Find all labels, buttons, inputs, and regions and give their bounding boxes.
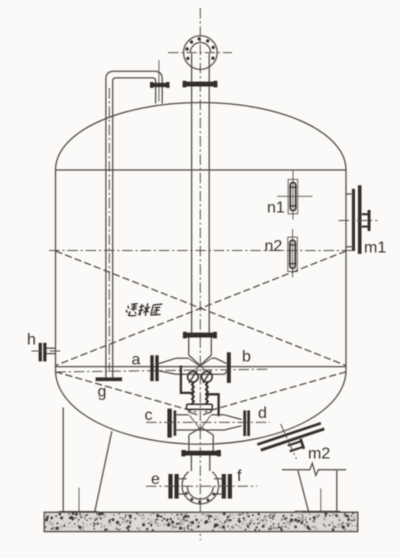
sight glass n1 body <box>288 179 298 213</box>
top flange circle <box>184 36 218 70</box>
nozzle cap circle left <box>188 371 199 384</box>
flange pair e <box>168 474 178 499</box>
stub f walls <box>214 479 221 494</box>
nozzle h centerline <box>32 350 64 352</box>
elbow body outer arc <box>182 472 219 504</box>
right leg anchor centerline <box>320 489 322 525</box>
central pipe enlarged section above tee <box>189 338 212 366</box>
outlet chevron below c-d <box>189 427 213 435</box>
riser drop nozzle centerline <box>158 60 160 102</box>
manhole m1 blind cover <box>358 185 362 254</box>
nozzle cap circle right <box>202 371 213 384</box>
manhole m1 neck <box>346 194 352 247</box>
left leg anchor centerline <box>78 488 80 525</box>
central pipe lower flange <box>183 332 217 339</box>
e-f centerline <box>146 485 257 487</box>
media layer top centerline <box>49 250 352 252</box>
label f <box>237 468 242 485</box>
svg-text:f: f <box>237 468 242 485</box>
vessel shell left wall <box>55 170 57 370</box>
sample line left (a-b pipe down to rod) <box>181 366 193 393</box>
flange pair c <box>167 409 176 438</box>
flange b <box>227 352 231 383</box>
riser drop flange on head <box>150 82 170 88</box>
label m2 <box>308 446 330 463</box>
pipe a-b left reducer cone <box>159 358 176 374</box>
threaded rods <box>192 382 208 404</box>
rod base plate <box>187 404 213 409</box>
nozzle h stub pipe <box>46 348 56 353</box>
riser pipe centerline <box>108 88 110 372</box>
svg-text:e: e <box>151 471 160 488</box>
bottom cone dashed left <box>56 372 197 412</box>
dip pipe end plate g <box>96 377 123 381</box>
foundation dark specks <box>45 512 357 531</box>
elbow inner arc <box>187 486 213 499</box>
distributor elevation centerline <box>56 369 269 372</box>
label d <box>258 405 267 422</box>
elbow bolt dots <box>185 492 215 504</box>
nozzle h flange pair <box>39 343 47 362</box>
flange pair a <box>150 355 158 381</box>
outlet drop pipe <box>191 456 209 472</box>
bottom cone dashed right <box>205 372 346 412</box>
pipe c-d bottom wall <box>176 429 224 431</box>
external riser pipe g (double line with bends) <box>106 71 162 377</box>
n1 vertical centerline <box>292 171 294 220</box>
pipe c-d top wall <box>176 414 224 416</box>
label g <box>98 384 107 401</box>
top head dome <box>56 103 347 171</box>
m2 axis centerline <box>281 424 297 459</box>
top head weld seam <box>56 169 347 171</box>
svg-text:a: a <box>132 352 141 369</box>
svg-text:h: h <box>27 332 36 349</box>
sample line right (rod down to c-d pipe) <box>208 394 219 416</box>
label 滤料层 (filter media layer) <box>125 303 162 316</box>
label a <box>132 352 141 369</box>
pipe a-b tee cross marks <box>189 359 212 375</box>
central pipe main run <box>192 87 210 333</box>
central funnel above c-d tee <box>189 409 212 414</box>
pipe a-b right reducer cone <box>216 358 227 374</box>
sight glass n2 body <box>288 237 298 271</box>
vessel vertical centerline <box>199 8 201 540</box>
flange pair f <box>222 474 232 499</box>
outlet pipe walls <box>189 435 213 451</box>
vessel shell right wall <box>345 170 347 370</box>
svg-text:m2: m2 <box>308 446 330 463</box>
central pipe top flange <box>183 81 218 88</box>
svg-text:b: b <box>242 349 251 366</box>
n2 vertical centerline <box>292 229 294 278</box>
svg-text:g: g <box>98 384 107 401</box>
outlet flange <box>181 450 221 456</box>
bottom head dome <box>56 370 347 444</box>
svg-text:c: c <box>145 407 153 424</box>
top nozzle horizontal centerline <box>168 52 232 54</box>
label n1 <box>267 200 285 217</box>
bottom head weld seam <box>56 366 347 368</box>
label n2 <box>265 238 283 255</box>
label c <box>145 407 153 424</box>
n1 horizontal centerline <box>277 195 313 197</box>
svg-text:n2: n2 <box>265 238 283 255</box>
m1 centerline <box>339 220 378 222</box>
pipe c-d tee vee <box>190 415 211 429</box>
handhole m2 flange and cover (rotated) <box>257 422 328 463</box>
svg-text:m1: m1 <box>364 240 386 257</box>
media layer diagonal right-top to left-bottom <box>56 251 347 366</box>
manhole m1 flange ring <box>352 189 355 251</box>
label e <box>151 471 160 488</box>
flange pair d <box>243 410 250 436</box>
foundation slab <box>44 512 358 531</box>
label m1 <box>364 240 386 257</box>
media layer diagonal left-top to right-bottom <box>56 251 347 366</box>
central riser pipe upper <box>192 54 210 82</box>
svg-text:n1: n1 <box>267 200 285 217</box>
pipe c-d right reducer cone <box>224 415 241 430</box>
pipe a-b bottom wall <box>164 372 225 375</box>
pipe a-b top wall <box>176 357 216 359</box>
foundation gray mottling <box>44 512 355 532</box>
c-d centerline <box>146 421 270 423</box>
right support leg <box>295 470 341 511</box>
svg-text:d: d <box>258 405 267 422</box>
label b <box>242 349 251 366</box>
label h <box>27 332 36 349</box>
top flange bolt holes <box>185 37 214 60</box>
left support leg <box>59 408 112 512</box>
manhole m1 handle nub <box>362 210 371 231</box>
stub e walls <box>179 479 187 494</box>
right support leg top break line <box>282 463 346 475</box>
